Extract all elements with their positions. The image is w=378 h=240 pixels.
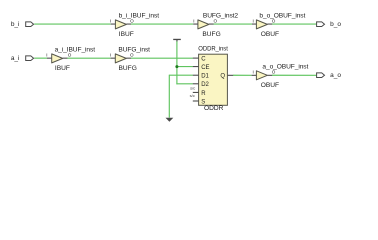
svg-text:b_o_OBUF_inst: b_o_OBUF_inst [259, 12, 305, 19]
svg-text:OBUF: OBUF [261, 31, 279, 38]
svg-text:a_o_OBUF_inst: a_o_OBUF_inst [262, 64, 308, 71]
svg-text:I: I [110, 53, 111, 58]
svg-text:I: I [110, 19, 111, 24]
svg-text:C: C [201, 56, 206, 62]
svg-text:IBUF: IBUF [55, 65, 70, 72]
svg-text:I: I [253, 19, 254, 24]
svg-text:s/c: s/c [190, 86, 196, 90]
svg-text:D2: D2 [201, 82, 209, 88]
svg-text:BUFG: BUFG [202, 31, 220, 38]
svg-text:BUFG_inst: BUFG_inst [118, 46, 150, 53]
svg-text:a_i: a_i [11, 55, 20, 62]
svg-text:I: I [253, 69, 254, 74]
svg-text:I: I [46, 53, 47, 58]
svg-text:BUFG: BUFG [119, 65, 137, 72]
svg-text:OBUF: OBUF [261, 82, 279, 89]
svg-text:R: R [201, 91, 206, 97]
svg-text:b_o: b_o [330, 21, 341, 28]
svg-text:a_i_IBUF_inst: a_i_IBUF_inst [55, 46, 96, 53]
svg-text:ODDR_inst: ODDR_inst [198, 45, 228, 52]
svg-text:BUFG_inst2: BUFG_inst2 [203, 12, 239, 19]
svg-text:I: I [193, 19, 194, 24]
svg-text:D1: D1 [201, 74, 209, 80]
svg-text:b_i_IBUF_inst: b_i_IBUF_inst [119, 12, 160, 19]
svg-text:s/c: s/c [190, 94, 195, 98]
svg-text:Q: Q [220, 74, 225, 80]
svg-text:CE: CE [201, 65, 209, 71]
svg-text:b_i: b_i [11, 21, 20, 28]
svg-text:ODDR: ODDR [204, 105, 224, 112]
svg-text:a_o: a_o [330, 72, 341, 79]
svg-text:IBUF: IBUF [119, 31, 134, 38]
